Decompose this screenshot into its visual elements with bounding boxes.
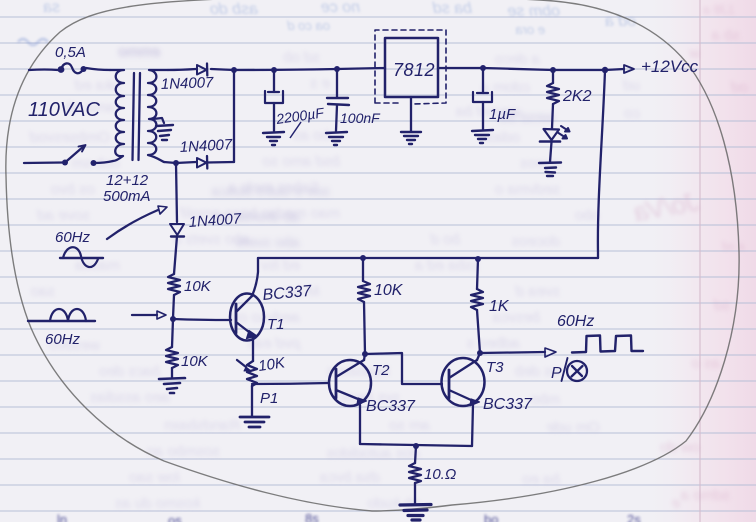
svg-text:7812: 7812 [393, 60, 435, 80]
transistor Q1 emitter stroke [236, 322, 257, 339]
wire P1 to T2 base [252, 383, 329, 384]
svg-text:ud: ud [623, 77, 640, 94]
wire T2 emitter down [359, 405, 361, 444]
svg-text:a deco: a deco [495, 51, 540, 68]
output wire from T3 collector [480, 348, 556, 357]
svg-text:low sao: low sao [129, 469, 180, 486]
svg-text:od: od [731, 79, 748, 96]
svg-text:1N4007: 1N4007 [179, 136, 233, 156]
transistor Q3 base bar [448, 370, 451, 398]
svg-text:no ce: no ce [321, 0, 360, 16]
wire secondary top to D1 [168, 69, 196, 70]
transistor Q3 collector stroke [449, 360, 477, 378]
svg-text:10K: 10K [184, 278, 212, 295]
svg-text:60Hz: 60Hz [557, 313, 594, 330]
node cap 2200uF [271, 67, 277, 73]
wire +12V rail down to collector rail [598, 70, 605, 258]
input arrow to base node [132, 311, 166, 319]
node 2K2 branch [550, 67, 556, 73]
transformer center tap wire [153, 118, 164, 123]
wire T3 collector up [477, 353, 480, 360]
regulator U1 7812 box [385, 38, 438, 97]
svg-text:8s: 8s [305, 511, 319, 522]
wire T3 emitter down [472, 404, 473, 446]
svg-text:adbeo s: adbeo s [466, 335, 520, 352]
svg-text:60Hz: 60Hz [55, 229, 91, 246]
transistor Q1 collector stroke [236, 296, 252, 312]
svg-text:12+12: 12+12 [106, 172, 149, 189]
svg-text:obm se: obm se [507, 3, 560, 20]
wire T1 collector drop [252, 258, 258, 296]
wire D1 to node [211, 69, 234, 70]
svg-text:T1: T1 [267, 316, 285, 333]
ground R6 [400, 505, 431, 521]
svg-text:P1: P1 [260, 390, 278, 407]
svg-text:obo: obo [575, 207, 600, 224]
node secondary bottom junction [173, 160, 179, 166]
svg-text:BC337: BC337 [483, 396, 533, 413]
transistor Q1 base bar [235, 304, 238, 333]
svg-text:e: e [672, 495, 680, 512]
regulator ground pin [410, 97, 412, 131]
svg-text:sb a: sb a [712, 27, 740, 44]
capacitor C1 2200uF [265, 70, 283, 131]
svg-text:bacs deo: bacs deo [99, 363, 160, 380]
wire regulator out [438, 67, 483, 69]
svg-text:1N4007: 1N4007 [161, 74, 215, 93]
svg-text:am so: am so [389, 417, 430, 434]
wire emitter bus [360, 444, 472, 446]
wire switch to transformer [94, 161, 114, 163]
transistor Q2 base bar [335, 369, 338, 398]
svg-text:co: co [624, 105, 640, 122]
svg-text:as o: as o [692, 355, 720, 372]
svg-text:ln: ln [57, 512, 67, 522]
svg-text:2s: 2s [627, 512, 641, 522]
wire bottom-left to switch [24, 161, 63, 164]
svg-text:sd: sd [714, 297, 731, 314]
svg-text:sdmo a: sdmo a [681, 487, 730, 504]
node emitter bus [413, 443, 419, 449]
transistor Q3 emitter stroke [449, 390, 480, 406]
diode D3 1N4007 [170, 224, 184, 274]
svg-text:bo: bo [484, 512, 498, 522]
svg-text:Ombsesvod: Ombsesvod [29, 129, 110, 146]
wire top rail to regulator [234, 68, 385, 70]
svg-text:BC337: BC337 [366, 398, 416, 415]
wire T1 emitter down [252, 338, 254, 361]
svg-text:emmo: emmo [118, 44, 160, 61]
resistor R5 2K2 [547, 70, 559, 128]
svg-text:e ora: e ora [515, 22, 545, 37]
svg-text:Om ude: Om ude [547, 419, 600, 436]
output indicator P/X circle [562, 358, 588, 381]
svg-text:aeo assdias: aeo assdias [89, 389, 170, 406]
resistor R6 10ohm [409, 446, 421, 504]
node T2 collector [362, 351, 368, 357]
wire T2 collector up [364, 354, 365, 360]
svg-text:100nF: 100nF [340, 110, 381, 126]
svg-text:sedvma o: sedvma o [495, 181, 560, 198]
LED D4 [540, 126, 570, 162]
node cap 100nF [334, 66, 340, 72]
ground center tap [156, 125, 173, 140]
svg-text:bsd amo so: bsd amo so [262, 153, 340, 170]
ground U1 [401, 132, 421, 144]
svg-text:abo svets: abo svets [235, 234, 300, 251]
svg-text:Randsbaxn: Randsbaxn [164, 417, 240, 434]
svg-text:dos autodidos: dos autodidos [326, 445, 420, 462]
resistor R1 10K upper [168, 274, 180, 318]
svg-text:T3: T3 [486, 359, 504, 376]
svg-text:T2: T2 [372, 362, 390, 379]
svg-text:bo d: bo d [430, 231, 460, 248]
sine wave symbol 60Hz [60, 247, 103, 267]
node cap 1uF [480, 65, 486, 71]
square wave symbol [572, 336, 643, 353]
wire top-left to fuse [29, 68, 58, 71]
node T3 collector [477, 350, 483, 356]
node T1 base junction [170, 316, 176, 322]
svg-text:mbo: mbo [531, 391, 560, 408]
svg-text:10K: 10K [181, 353, 209, 370]
svg-text:1K: 1K [489, 298, 510, 315]
resistor R4 1K [471, 259, 483, 353]
svg-text:110VAC: 110VAC [28, 99, 100, 121]
ground C2 [326, 132, 347, 145]
transformer TR1 secondary winding [148, 70, 168, 162]
svg-text:kosmo du as: kosmo du as [114, 495, 200, 512]
svg-text:sd ob: sd ob [283, 49, 320, 66]
svg-text:sao: sao [31, 283, 55, 300]
svg-text:sov o outro busca: sov o outro busca [212, 183, 330, 200]
arrow sine to D3 [107, 206, 167, 239]
node top rectifier junction [231, 67, 237, 73]
svg-text:10K: 10K [374, 282, 404, 299]
wire rectifier vertical [233, 70, 235, 162]
capacitor C2 100nF [327, 69, 349, 131]
potentiometer P1 10K [237, 360, 257, 386]
transformer TR1 core [133, 73, 141, 160]
half-sine wave symbol 60Hz [28, 309, 95, 321]
svg-text:1µF: 1µF [489, 106, 516, 123]
ground C3 [472, 130, 493, 143]
svg-text:sa: sa [43, 0, 60, 16]
regulator U1 7812 dashed outline [375, 30, 446, 104]
svg-text:ow do: ow do [660, 439, 700, 456]
svg-text:sove ad: sove ad [37, 207, 90, 224]
wire secondary bottom to D2 [164, 162, 176, 163]
svg-text:+12Vcc: +12Vcc [641, 57, 699, 76]
svg-text:1J8 a: 1J8 a [703, 2, 735, 17]
svg-text:a sd: a sd [722, 239, 745, 253]
svg-text:P: P [551, 365, 562, 382]
node rail R3 [360, 255, 366, 261]
svg-text:os: os [168, 513, 182, 522]
wire T2 collector to T3 base [365, 353, 442, 384]
wire base node to T1 [173, 319, 231, 320]
svg-text:os bvo: os bvo [51, 181, 95, 198]
switch S1 [62, 145, 97, 166]
svg-text:doceos: doceos [511, 233, 560, 250]
wire node to D2 [176, 162, 196, 163]
svg-text:dsa bvca: dsa bvca [320, 469, 380, 486]
svg-text:ba sd: ba sd [432, 0, 472, 17]
resistor R2 10K lower [166, 319, 178, 377]
transistor Q2 emitter stroke [336, 390, 367, 405]
fuse F1 0,5A [58, 63, 87, 73]
wire P1 down to ground [251, 386, 253, 416]
resistor R3 10K (T2 collector) [358, 258, 370, 354]
+12Vcc output arrow [605, 65, 634, 73]
transformer TR1 primary winding [110, 70, 124, 161]
svg-text:aedvso os: aedvso os [231, 309, 300, 326]
svg-text:ba eo: ba eo [522, 471, 560, 488]
node rail R4 [475, 256, 481, 262]
transistor Q2 T2 BC337 circle [329, 360, 371, 406]
svg-text:svea d: svea d [515, 283, 560, 300]
svg-text:e s: e s [309, 75, 330, 92]
svg-text:asb do: asb do [210, 1, 258, 18]
ground C1 [263, 132, 284, 145]
svg-text:ssba ed a: ssba ed a [415, 257, 480, 274]
svg-text:10.Ω: 10.Ω [424, 466, 456, 483]
wire fuse to transformer [86, 68, 110, 70]
ground R2 [159, 378, 185, 393]
transistor Q3 T3 BC337 circle [442, 358, 485, 406]
ground P1 [240, 417, 269, 427]
diode D1 1N4007 [197, 64, 207, 76]
svg-text:500mA: 500mA [103, 188, 151, 205]
node +12V branch [602, 67, 608, 73]
svg-text:bo as: bo as [293, 127, 330, 144]
svg-text:0,5A: 0,5A [55, 44, 86, 61]
ground LED [539, 163, 561, 177]
wire to LED branch [483, 68, 553, 70]
svg-text:60Hz: 60Hz [45, 331, 81, 348]
transistor Q2 collector stroke [336, 360, 364, 377]
capacitor C3 1uF [473, 68, 492, 129]
wire D3 branch down [176, 163, 177, 222]
wire to +12V arrow [553, 69, 605, 71]
transistor Q1 T1 BC337 circle [230, 294, 264, 341]
diode D2 1N4007 [197, 156, 234, 169]
wire collector rail horizontal [258, 257, 598, 259]
svg-text:oka ed: oka ed [74, 77, 120, 94]
svg-text:2K2: 2K2 [562, 88, 592, 105]
svg-text:ed lsv: ed lsv [259, 257, 300, 274]
svg-text:oa co d: oa co d [287, 18, 330, 33]
